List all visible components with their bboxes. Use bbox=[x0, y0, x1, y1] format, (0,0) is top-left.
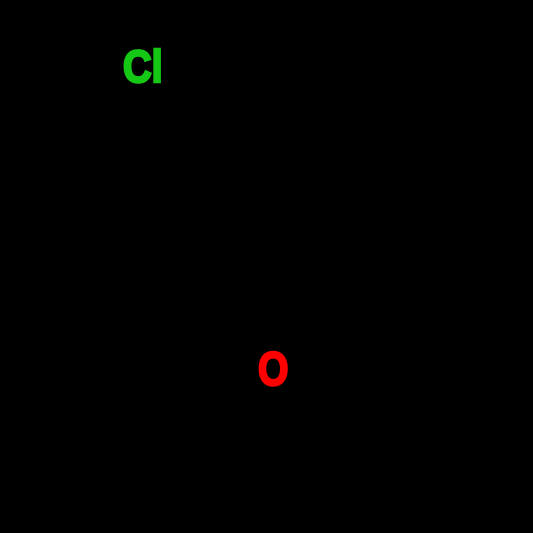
atom label O bbox=[258, 346, 288, 393]
atom label Cl bbox=[123, 44, 163, 90]
